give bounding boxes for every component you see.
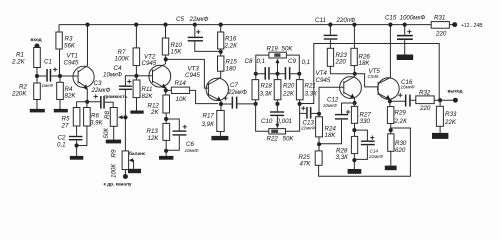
svg-text:выход: выход xyxy=(448,89,463,94)
wire R3 to base node xyxy=(59,49,61,76)
wire base VT2 xyxy=(136,75,152,77)
node R8 wiper xyxy=(123,115,127,119)
svg-text:R13: R13 xyxy=(147,128,159,135)
wire C3 to R8 top xyxy=(105,102,113,107)
wire R20 bottom to C10 xyxy=(276,100,278,112)
svg-text:22мкФ: 22мкФ xyxy=(300,125,315,130)
node R18 bottom / C7 xyxy=(254,102,258,106)
resistor R17 xyxy=(220,104,222,111)
wire base VT1 xyxy=(60,75,78,77)
svg-text:3,3К: 3,3К xyxy=(260,90,273,97)
svg-text:R20: R20 xyxy=(283,82,295,89)
svg-text:2K: 2K xyxy=(150,109,159,116)
svg-text:82K: 82K xyxy=(65,93,77,100)
svg-text:0,1: 0,1 xyxy=(257,58,266,65)
node VT2 collector xyxy=(164,57,168,61)
capacitor C4 xyxy=(119,86,132,87)
node VT5 emitter xyxy=(388,99,392,103)
ground R28 xyxy=(348,169,362,174)
wire R23 bottom to node D xyxy=(330,66,354,74)
svg-text:220: 220 xyxy=(419,105,431,112)
wire R21 bottom to R22 right xyxy=(286,100,300,132)
svg-text:C9: C9 xyxy=(288,58,296,65)
node R20 bottom / C10 xyxy=(275,102,279,106)
svg-text:R32: R32 xyxy=(419,89,431,96)
capacitor C1 xyxy=(37,75,60,77)
svg-text:50K: 50K xyxy=(282,45,294,52)
svg-text:R31: R31 xyxy=(434,14,445,21)
svg-text:R9: R9 xyxy=(111,149,118,157)
svg-text:R6: R6 xyxy=(91,112,99,119)
svg-text:R30: R30 xyxy=(395,140,407,147)
ground C2 xyxy=(70,156,84,160)
resistor R14 xyxy=(166,89,172,91)
svg-text:47K: 47K xyxy=(300,160,312,167)
resistor R28 xyxy=(351,136,357,153)
wire R19 right lead xyxy=(286,55,299,71)
capacitor C2 xyxy=(76,126,78,136)
svg-text:громкость: громкость xyxy=(104,94,128,99)
svg-text:220K: 220K xyxy=(11,90,27,97)
svg-text:18K: 18K xyxy=(359,60,371,67)
resistor R21 xyxy=(298,74,300,80)
node R3-C1-R4-base xyxy=(58,74,62,78)
wire branch to C13 xyxy=(300,112,307,114)
resistor R25 xyxy=(315,151,322,165)
svg-text:R33: R33 xyxy=(445,111,457,118)
wire VT2 collector to VT3 base xyxy=(166,59,208,88)
svg-text:C8: C8 xyxy=(245,58,253,65)
node VT2 base xyxy=(134,74,138,78)
node rail junctions xyxy=(85,23,89,27)
resistor R24 xyxy=(318,114,320,117)
svg-text:50K: 50K xyxy=(283,135,295,142)
capacitor C7 xyxy=(221,103,254,105)
svg-text:22мкФ: 22мкФ xyxy=(189,16,209,23)
wire R18 bottom to R22 left xyxy=(256,100,269,132)
svg-text:C945: C945 xyxy=(368,74,379,79)
svg-text:15K: 15K xyxy=(171,49,183,56)
node VT4 emitter xyxy=(353,101,357,105)
resistor R7 xyxy=(135,25,137,48)
svg-text:R16: R16 xyxy=(225,35,237,42)
wire R25 to feedback bottom xyxy=(319,128,411,176)
node C2-R6-ground xyxy=(75,143,79,147)
capacitor C10 xyxy=(270,111,284,112)
transistor VT5 xyxy=(378,78,400,100)
resistor R32 xyxy=(416,96,434,104)
resistor R18 xyxy=(255,74,257,80)
svg-text:220: 220 xyxy=(335,59,347,66)
wire feedback loop xyxy=(300,44,440,104)
svg-text:0,1: 0,1 xyxy=(57,141,66,148)
svg-text:1мкФ: 1мкФ xyxy=(42,83,54,88)
svg-text:C15: C15 xyxy=(385,14,397,21)
transistor VT4 xyxy=(340,77,362,99)
ground R33 xyxy=(432,133,448,139)
wire input lead xyxy=(36,46,38,48)
svg-text:22мкФ: 22мкФ xyxy=(368,154,383,159)
svg-text:C945: C945 xyxy=(316,77,331,84)
wire R19 left lead xyxy=(256,55,269,71)
svg-text:R18: R18 xyxy=(261,82,273,89)
svg-text:R29: R29 xyxy=(395,110,407,117)
wire node D to VT5 base xyxy=(355,74,378,87)
svg-text:10мкФ: 10мкФ xyxy=(185,148,199,153)
wire VT5 collector to rail xyxy=(389,25,391,78)
capacitor C8 xyxy=(256,73,278,75)
svg-text:620: 620 xyxy=(395,147,406,154)
wire R8 to ground xyxy=(113,126,115,139)
svg-text:3,9К: 3,9К xyxy=(202,121,215,128)
wire VT3 emitter down xyxy=(220,101,222,104)
wire R7 to VT2 base node xyxy=(135,66,137,76)
capacitor C12 xyxy=(342,103,355,114)
resistor R5 xyxy=(73,108,80,127)
svg-text:2,2К: 2,2К xyxy=(224,42,238,49)
svg-text:10мкФ: 10мкФ xyxy=(103,71,122,78)
svg-text:R14: R14 xyxy=(175,80,187,87)
wire VT5 emitter xyxy=(389,99,391,101)
resistor R16 xyxy=(220,25,222,32)
wire VT1 collector to rail xyxy=(87,25,89,66)
svg-text:100К: 100К xyxy=(111,164,118,178)
wire R32 to output xyxy=(434,99,453,101)
svg-text:C10: C10 xyxy=(261,118,273,125)
svg-text:R3: R3 xyxy=(65,35,73,42)
capacitor C15 xyxy=(404,25,406,55)
svg-text:вход: вход xyxy=(31,37,42,42)
svg-text:1000мкФ: 1000мкФ xyxy=(400,14,426,21)
resistor R15 xyxy=(218,56,224,71)
capacitor C14 xyxy=(354,130,367,159)
node R12-R13-C6 xyxy=(164,117,168,121)
svg-text:18K: 18K xyxy=(325,132,337,139)
svg-text:220пФ: 220пФ xyxy=(336,17,356,24)
wiper C10 to R22 xyxy=(276,116,278,124)
wiper R8 xyxy=(121,116,126,118)
node E R27 bottom xyxy=(354,123,356,136)
svg-text:к др. каналу: к др. каналу xyxy=(104,181,132,186)
svg-text:82K: 82K xyxy=(142,93,154,100)
node VT1 emitter xyxy=(85,100,89,104)
capacitor C6 xyxy=(166,119,179,150)
capacitor C9 xyxy=(278,73,300,75)
svg-text:180: 180 xyxy=(226,65,237,72)
capacitor C3 xyxy=(100,96,102,109)
ground R17 xyxy=(211,136,228,140)
node R21 bottom / feedback xyxy=(298,102,302,106)
wire emitter node to R5/C3 xyxy=(77,102,101,108)
node R16-R15-C5 xyxy=(220,49,222,56)
node A feedback/base xyxy=(317,112,321,116)
ground R9 wiper xyxy=(128,169,141,173)
node B divider xyxy=(318,137,320,151)
resistor R20 xyxy=(277,74,279,80)
potentiometer R19 xyxy=(269,52,287,58)
wire VT4 collector xyxy=(354,74,356,77)
svg-text:R1: R1 xyxy=(16,52,24,59)
svg-text:100K: 100K xyxy=(115,56,130,63)
svg-text:56K: 56K xyxy=(64,42,76,49)
node к др. каналу terminal xyxy=(123,174,128,179)
resistor R33 xyxy=(439,100,441,106)
transistor VT1 xyxy=(73,66,94,87)
svg-text:C945: C945 xyxy=(142,60,157,67)
node bus mid xyxy=(275,72,279,76)
svg-text:баланс: баланс xyxy=(129,150,146,156)
node выход terminal xyxy=(453,98,458,103)
svg-text:+12...24В: +12...24В xyxy=(461,23,483,29)
svg-text:27: 27 xyxy=(61,122,69,129)
svg-text:R19: R19 xyxy=(267,45,279,52)
node bus right xyxy=(297,72,301,76)
svg-text:22мкФ: 22мкФ xyxy=(227,89,247,96)
capacitor C11 xyxy=(329,25,331,49)
node C1-R1-R2 xyxy=(35,74,39,78)
potentiometer R8 xyxy=(110,108,117,127)
wire node B to C12 xyxy=(319,120,341,144)
svg-text:C5: C5 xyxy=(176,16,184,23)
resistor R11 xyxy=(135,76,137,80)
svg-text:3,3К: 3,3К xyxy=(305,90,318,97)
resistor R23 xyxy=(327,48,333,66)
transistor VT2 xyxy=(149,65,171,87)
wire R2 to ground xyxy=(36,100,38,110)
ground R2 xyxy=(30,109,45,113)
node D collector VT4 / base VT5 xyxy=(353,72,357,76)
capacitor C5 xyxy=(195,25,221,52)
wire volume line C4 column xyxy=(125,76,136,151)
wire R1 to node xyxy=(36,68,38,84)
node output junction xyxy=(438,98,442,102)
transistor VT3 xyxy=(206,78,228,100)
resistor R30 xyxy=(388,134,394,152)
svg-text:R5: R5 xyxy=(62,115,70,122)
resistor R10 xyxy=(165,25,167,38)
potentiometer R22 xyxy=(269,129,286,134)
resistor R4 xyxy=(59,76,61,82)
svg-text:10K: 10K xyxy=(176,96,188,103)
resistor R3 xyxy=(56,32,62,49)
wire R10 to collector node xyxy=(165,55,167,64)
resistor R31 xyxy=(431,22,449,29)
svg-text:C14: C14 xyxy=(370,149,379,154)
wiper R19 xyxy=(277,63,279,74)
svg-text:C3: C3 xyxy=(94,80,102,87)
wire C2/R6 to ground node xyxy=(77,126,87,156)
svg-text:R22: R22 xyxy=(267,135,279,142)
node R13-C6-ground xyxy=(164,149,168,153)
node VT2 emitter xyxy=(164,88,168,92)
svg-text:3,3К: 3,3К xyxy=(336,154,349,161)
node bus left xyxy=(254,72,258,76)
wire R15 to VT3 collector xyxy=(220,71,222,78)
svg-text:3,9К: 3,9К xyxy=(90,119,103,126)
svg-text:R17: R17 xyxy=(203,113,215,120)
ground R4 xyxy=(54,109,68,113)
capacitor C13 xyxy=(306,107,308,119)
svg-text:C945: C945 xyxy=(185,72,200,79)
resistor R2 xyxy=(34,83,41,100)
svg-text:10мкФ: 10мкФ xyxy=(323,103,337,108)
ground R30 xyxy=(385,166,397,171)
resistor R26 xyxy=(353,25,355,49)
ground R13 xyxy=(159,156,173,160)
svg-text:0,1: 0,1 xyxy=(302,59,311,66)
node +12...24В terminal xyxy=(452,22,457,27)
node VT3 emitter xyxy=(219,102,223,106)
svg-text:2,2К: 2,2К xyxy=(394,118,408,125)
svg-text:C6: C6 xyxy=(186,141,194,148)
svg-text:22K: 22K xyxy=(282,90,295,97)
wire power rail xyxy=(59,25,453,32)
svg-text:22K: 22K xyxy=(444,119,457,126)
wiper R9 xyxy=(131,160,134,169)
svg-text:R8: R8 xyxy=(104,111,111,119)
node F R29 bottom xyxy=(390,124,392,134)
svg-text:220: 220 xyxy=(435,30,447,37)
resistor R12 xyxy=(165,90,167,95)
resistor R29 xyxy=(389,101,391,106)
svg-text:VT4: VT4 xyxy=(316,70,328,77)
svg-text:C945: C945 xyxy=(64,59,79,66)
svg-text:10мкФ: 10мкФ xyxy=(401,84,415,89)
resistor R6 xyxy=(84,108,91,127)
svg-text:VT1: VT1 xyxy=(67,52,78,59)
resistor R27 xyxy=(354,103,356,106)
wire VT2 emitter down xyxy=(165,87,167,90)
ground C15 xyxy=(397,55,414,61)
wire C13 to node A xyxy=(311,112,319,114)
wire R9 bottom xyxy=(124,170,126,177)
wire VT4 emitter xyxy=(354,98,356,103)
svg-text:330: 330 xyxy=(360,118,371,125)
capacitor C16 xyxy=(390,100,416,101)
svg-text:50К: 50К xyxy=(103,128,110,139)
potentiometer R9 xyxy=(122,151,129,170)
wire R14 to VT3 emitter xyxy=(190,90,218,103)
svg-text:12K: 12K xyxy=(148,135,160,142)
ground R11 xyxy=(130,111,143,114)
svg-text:2.2K: 2.2K xyxy=(11,59,26,66)
wire node A to VT4 base xyxy=(319,87,344,114)
svg-text:C1: C1 xyxy=(44,59,52,66)
resistor R1 xyxy=(34,48,41,68)
ground R8 xyxy=(106,140,121,144)
wire VT1 emitter down xyxy=(86,89,88,102)
node R28 bottom xyxy=(353,154,355,169)
resistor R13 xyxy=(163,123,170,140)
svg-text:22мкФ: 22мкФ xyxy=(91,87,111,94)
svg-text:C11: C11 xyxy=(315,17,326,24)
